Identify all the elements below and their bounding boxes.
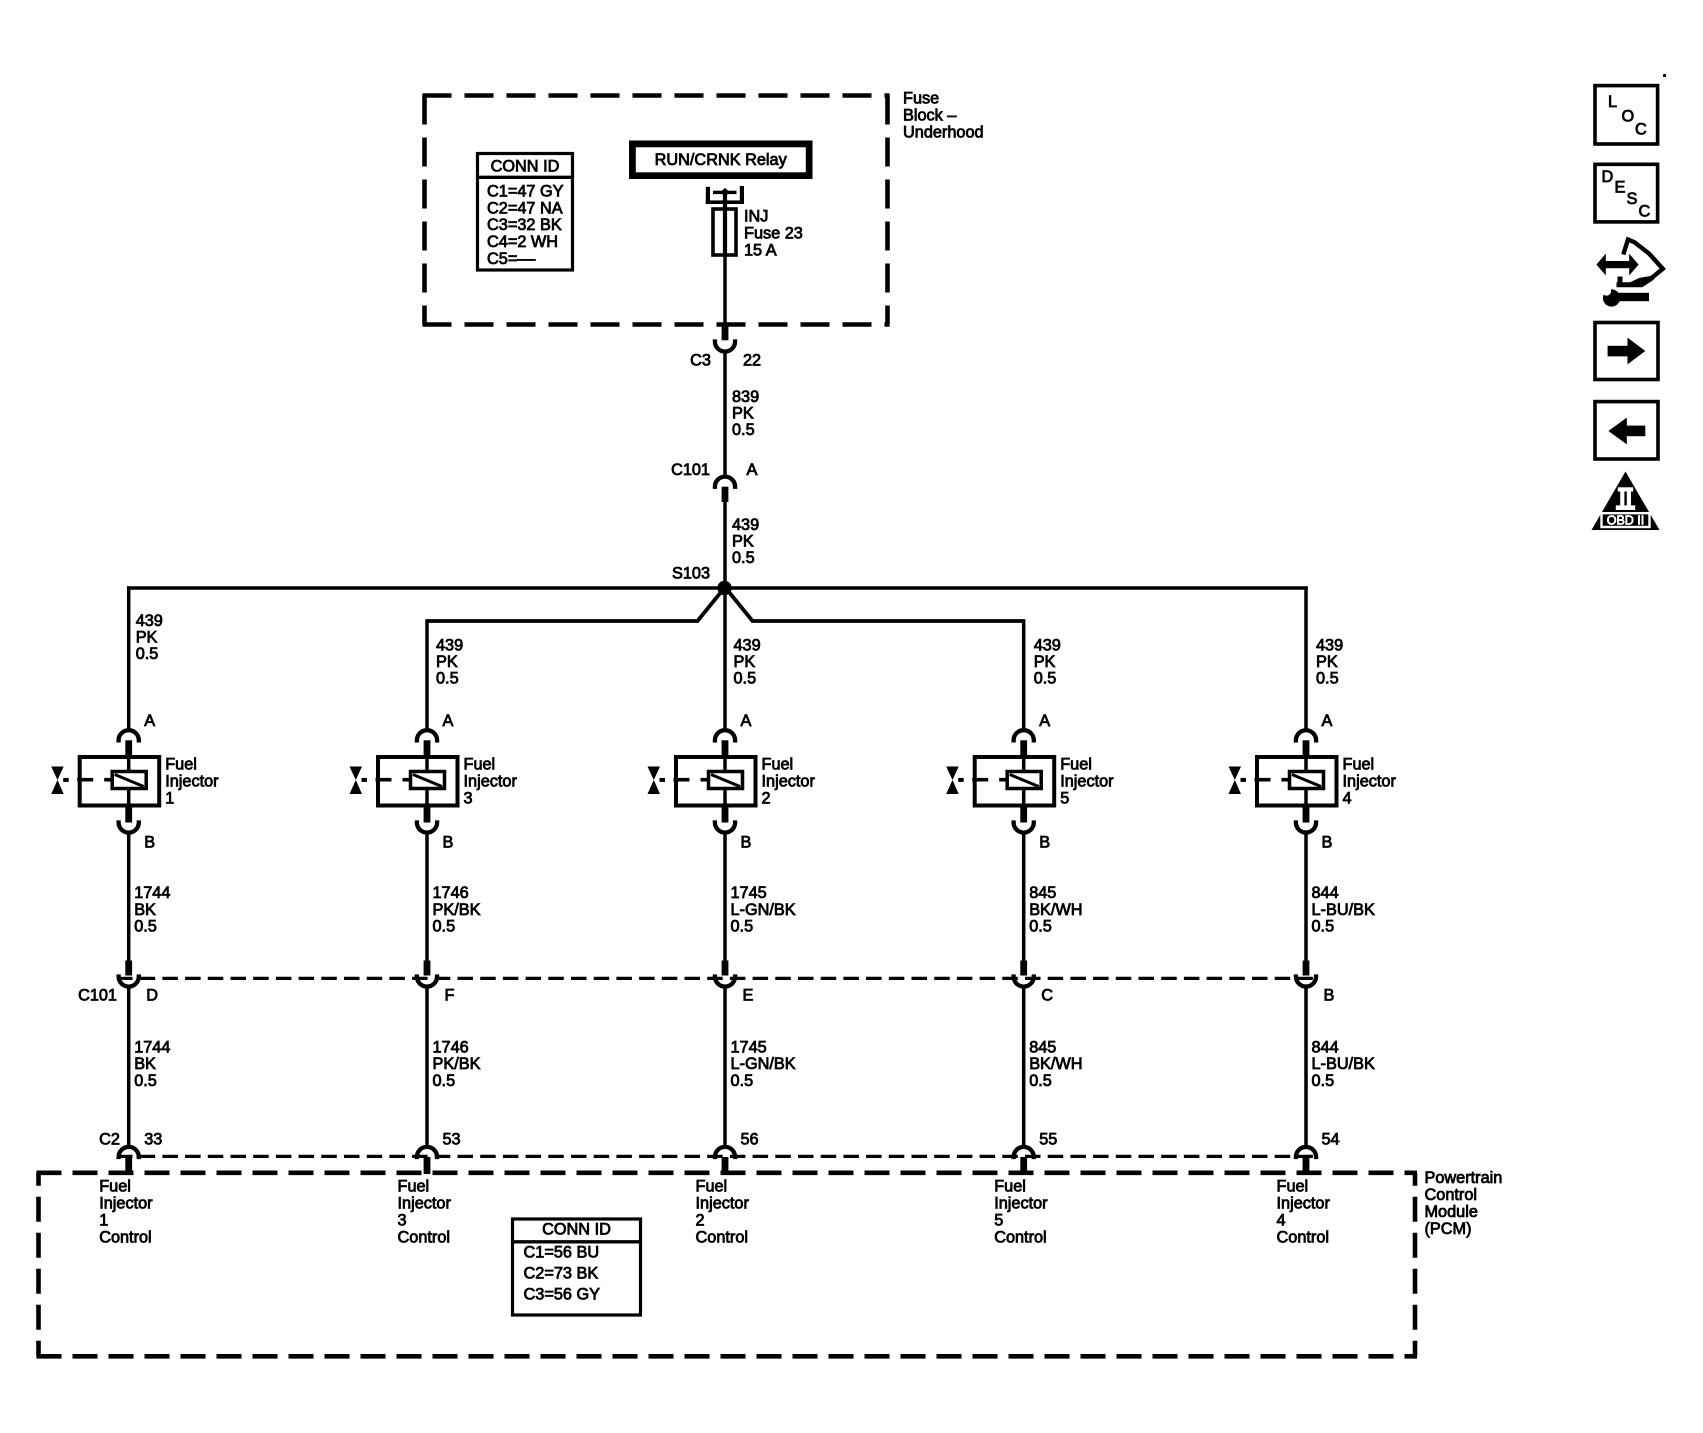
svg-text:RUN/CRNK Relay: RUN/CRNK Relay [655, 151, 788, 169]
fuel injector 1 pin B [125, 806, 132, 823]
svg-text:0.5: 0.5 [134, 918, 157, 936]
wire 839 PK 0.5 [723, 353, 727, 477]
svg-text:1: 1 [165, 789, 174, 807]
svg-text:C: C [1041, 986, 1053, 1004]
svg-text:B: B [741, 834, 752, 852]
svg-text:439: 439 [136, 612, 163, 630]
svg-text:439: 439 [1034, 636, 1061, 654]
svg-text:B: B [1322, 834, 1333, 852]
relay contact diamond node [720, 188, 729, 197]
wire splice top rail [127, 586, 1308, 590]
svg-text:F: F [445, 986, 455, 1004]
svg-text:Fuel: Fuel [165, 755, 197, 773]
svg-text:C5=––: C5=–– [487, 250, 536, 268]
svg-text:Underhood: Underhood [903, 124, 984, 142]
svg-text:Module: Module [1425, 1203, 1478, 1221]
svg-text:Injector: Injector [1277, 1195, 1331, 1213]
speck [1663, 74, 1666, 77]
PCM dashed border [37, 1171, 1418, 1176]
svg-text:0.5: 0.5 [732, 549, 755, 567]
svg-text:0.5: 0.5 [731, 918, 754, 936]
svg-text:Fuel: Fuel [762, 755, 794, 773]
connector C101 pin D [125, 961, 132, 976]
svg-text:C2: C2 [99, 1130, 120, 1148]
svg-text:L-BU/BK: L-BU/BK [1312, 901, 1375, 919]
svg-text:B: B [144, 834, 155, 852]
svg-text:439: 439 [734, 636, 761, 654]
fuel injector 2 coil [709, 772, 743, 789]
connector C101 inline dashed line [117, 977, 1318, 980]
svg-text:L-BU/BK: L-BU/BK [1312, 1055, 1375, 1073]
fuel injector 3 coil [411, 772, 445, 789]
PCM connector C2 inline dashed line [117, 1155, 1318, 1158]
svg-text:Fuel: Fuel [1277, 1178, 1309, 1196]
svg-text:22: 22 [743, 352, 761, 370]
svg-text:C3: C3 [690, 352, 711, 370]
svg-text:Powertrain: Powertrain [1425, 1169, 1503, 1187]
svg-text:C4=2 WH: C4=2 WH [487, 233, 558, 251]
svg-text:1744: 1744 [134, 1038, 170, 1056]
svg-text:0.5: 0.5 [436, 669, 459, 687]
fuel injector 3 pilot dashes [376, 778, 392, 782]
svg-text:4: 4 [1277, 1212, 1286, 1230]
svg-text:2: 2 [696, 1212, 705, 1230]
svg-text:A: A [144, 712, 155, 730]
svg-text:Injector: Injector [1343, 772, 1397, 790]
svg-text:0.5: 0.5 [1312, 1072, 1335, 1090]
svg-text:C3=56 GY: C3=56 GY [524, 1286, 601, 1304]
svg-text:L-GN/BK: L-GN/BK [731, 901, 796, 919]
svg-text:CONN ID: CONN ID [491, 158, 560, 176]
svg-text:3: 3 [398, 1212, 407, 1230]
svg-text:A: A [747, 461, 758, 479]
svg-text:INJ: INJ [744, 208, 768, 226]
icon diagnostic arrows and wrench [1596, 240, 1662, 307]
svg-text:C101: C101 [671, 461, 710, 479]
svg-text:C3=32 BK: C3=32 BK [487, 216, 562, 234]
wire C101 to PCM pin 55 [1022, 988, 1026, 1146]
PCM CONN ID table [513, 1219, 641, 1315]
svg-text:0.5: 0.5 [732, 421, 755, 439]
svg-text:1744: 1744 [134, 884, 170, 902]
svg-text:15 A: 15 A [744, 242, 777, 260]
svg-text:B: B [443, 834, 454, 852]
icon DESC box [1595, 164, 1658, 222]
svg-text:BK/WH: BK/WH [1029, 901, 1082, 919]
wire branch injector 2 [723, 588, 727, 731]
svg-text:C1=56 BU: C1=56 BU [524, 1244, 600, 1262]
wire injector 1 to C101 [127, 834, 131, 961]
fuel injector 2 body [676, 757, 756, 806]
svg-text:S103: S103 [672, 565, 710, 583]
svg-text:E: E [1615, 179, 1626, 197]
svg-text:PK: PK [1316, 653, 1338, 671]
wire injector 2 to C101 [723, 834, 727, 961]
svg-text:Fuel: Fuel [1060, 755, 1092, 773]
svg-text:A: A [443, 712, 454, 730]
svg-text:5: 5 [1060, 789, 1069, 807]
fuel injector 2 nozzle valve [648, 767, 661, 795]
svg-text:OBD II: OBD II [1607, 513, 1645, 527]
svg-text:844: 844 [1312, 1038, 1339, 1056]
fuel injector 5 pilot dashes [972, 778, 988, 782]
svg-text:O: O [1622, 107, 1635, 125]
svg-text:1746: 1746 [433, 884, 469, 902]
svg-text:(PCM): (PCM) [1425, 1220, 1472, 1238]
svg-text:PK: PK [436, 653, 458, 671]
svg-text:0.5: 0.5 [136, 645, 159, 663]
svg-text:0.5: 0.5 [1312, 918, 1335, 936]
svg-text:PK: PK [1034, 653, 1056, 671]
svg-text:A: A [1039, 712, 1050, 730]
connector C101 pin F [424, 961, 431, 976]
svg-text:Injector: Injector [994, 1195, 1048, 1213]
icon OBD II triangle [1592, 472, 1660, 531]
fuel injector 4 nozzle valve [1229, 767, 1242, 795]
wire splice second rail left [427, 589, 724, 621]
relay output contact bracket [706, 187, 710, 204]
svg-text:C: C [1635, 121, 1647, 139]
fuse block underhood dashed border [423, 93, 890, 98]
svg-text:Fuel: Fuel [398, 1178, 430, 1196]
wire C101 to PCM pin 53 [425, 988, 429, 1146]
svg-text:C2=73 BK: C2=73 BK [524, 1265, 599, 1283]
svg-text:3: 3 [464, 789, 473, 807]
fuel injector 3 nozzle valve [350, 767, 363, 795]
fuel injector 4 coil [1290, 772, 1324, 789]
svg-text:0.5: 0.5 [1029, 1072, 1052, 1090]
svg-text:Control: Control [696, 1229, 749, 1247]
svg-text:0.5: 0.5 [1316, 669, 1339, 687]
svg-text:L: L [1608, 93, 1617, 111]
svg-text:0.5: 0.5 [1034, 669, 1057, 687]
fuel injector 4 pilot dashes [1255, 778, 1271, 782]
svg-text:0.5: 0.5 [433, 1072, 456, 1090]
icon arrow left box [1595, 402, 1658, 459]
svg-text:D: D [1602, 168, 1614, 186]
svg-text:0.5: 0.5 [1029, 918, 1052, 936]
svg-text:1: 1 [99, 1212, 108, 1230]
svg-text:PK: PK [732, 405, 754, 423]
svg-text:PK: PK [734, 653, 756, 671]
svg-text:B: B [1039, 834, 1050, 852]
svg-text:Fuse 23: Fuse 23 [744, 225, 803, 243]
svg-text:Control: Control [994, 1229, 1046, 1247]
svg-text:53: 53 [443, 1130, 461, 1148]
svg-text:439: 439 [1316, 636, 1343, 654]
svg-text:E: E [743, 986, 754, 1004]
svg-text:439: 439 [436, 636, 463, 654]
svg-text:0.5: 0.5 [731, 1072, 754, 1090]
svg-text:844: 844 [1312, 884, 1339, 902]
svg-text:Fuse: Fuse [903, 90, 939, 108]
connector C3 pin 22 [722, 325, 729, 341]
fuel injector 5 body [975, 757, 1054, 806]
svg-text:Control: Control [398, 1229, 451, 1247]
wire C101 to PCM pin 33 [127, 988, 131, 1146]
fuel injector 1 nozzle valve [51, 767, 64, 795]
fuel injector 2 pilot dashes [674, 778, 690, 782]
svg-text:PK: PK [732, 533, 754, 551]
svg-text:Control: Control [99, 1229, 152, 1247]
wire injector 4 to C101 [1304, 834, 1308, 961]
svg-text:33: 33 [144, 1130, 162, 1148]
wire injector 3 to C101 [425, 834, 429, 961]
svg-text:2: 2 [762, 789, 771, 807]
fuel injector 3 pin B [424, 806, 431, 823]
svg-text:A: A [1322, 712, 1333, 730]
svg-text:BK: BK [134, 901, 156, 919]
fuel injector 5 pin B [1020, 806, 1027, 823]
svg-text:5: 5 [994, 1212, 1003, 1230]
wire injector 5 to C101 [1022, 834, 1026, 961]
svg-text:0.5: 0.5 [734, 669, 757, 687]
svg-text:1745: 1745 [731, 884, 767, 902]
svg-text:Fuel: Fuel [1343, 755, 1375, 773]
svg-text:4: 4 [1343, 789, 1352, 807]
fuel injector 5 coil [1007, 772, 1041, 789]
svg-text:BK: BK [134, 1055, 156, 1073]
svg-text:439: 439 [732, 516, 759, 534]
svg-text:L-GN/BK: L-GN/BK [731, 1055, 796, 1073]
wire C101 to PCM pin 56 [723, 988, 727, 1146]
svg-text:54: 54 [1322, 1130, 1340, 1148]
svg-text:S: S [1627, 190, 1638, 208]
svg-text:CONN ID: CONN ID [542, 1221, 611, 1239]
relay RUN/CRNK [629, 141, 813, 180]
svg-text:Injector: Injector [165, 772, 219, 790]
svg-text:56: 56 [741, 1130, 759, 1148]
svg-text:Fuel: Fuel [99, 1178, 131, 1196]
svg-text:D: D [146, 986, 158, 1004]
fuel injector 3 body [378, 757, 458, 806]
fuel injector 1 coil [112, 772, 146, 789]
svg-text:C2=47 NA: C2=47 NA [487, 199, 563, 217]
wire branch injector 3 [425, 619, 429, 731]
connector C101 pin B [1303, 961, 1310, 976]
wire branch injector 4 [1304, 586, 1308, 731]
fuel injector 2 pin B [722, 806, 729, 823]
icon LOC box [1595, 86, 1658, 144]
svg-text:A: A [741, 712, 752, 730]
svg-text:Control: Control [1425, 1186, 1478, 1204]
wire relay to fuse [723, 194, 727, 210]
svg-text:PK/BK: PK/BK [433, 1055, 481, 1073]
fuel injector 4 pin B [1303, 806, 1310, 823]
svg-text:1746: 1746 [433, 1038, 469, 1056]
svg-text:Fuel: Fuel [994, 1178, 1026, 1196]
fuse block CONN ID table [478, 154, 573, 271]
svg-text:Injector: Injector [1060, 772, 1114, 790]
svg-text:845: 845 [1029, 1038, 1056, 1056]
wire branch injector 5 [1022, 619, 1026, 731]
connector C101 pin E [722, 961, 729, 976]
svg-text:839: 839 [732, 388, 759, 406]
svg-text:Injector: Injector [762, 772, 816, 790]
fuel injector 4 body [1257, 757, 1337, 806]
svg-text:C: C [1639, 203, 1651, 221]
svg-text:55: 55 [1039, 1130, 1057, 1148]
svg-text:C101: C101 [78, 986, 117, 1004]
svg-text:Fuel: Fuel [696, 1178, 728, 1196]
svg-text:Fuel: Fuel [464, 755, 496, 773]
wire 439 PK 0.5 to splice [723, 500, 727, 588]
svg-text:0.5: 0.5 [134, 1072, 157, 1090]
svg-text:C1=47 GY: C1=47 GY [487, 183, 564, 201]
svg-text:0.5: 0.5 [433, 918, 456, 936]
connector C101 pin C [1020, 961, 1027, 976]
wire branch injector 1 [127, 586, 131, 731]
wire fuse to connector C3 [723, 255, 727, 325]
svg-text:Block –: Block – [903, 107, 957, 125]
svg-text:Injector: Injector [398, 1195, 452, 1213]
fuel injector 5 nozzle valve [946, 767, 959, 795]
wire C101 to PCM pin 54 [1304, 988, 1308, 1146]
svg-text:Injector: Injector [99, 1195, 153, 1213]
fuse INJ Fuse 23 15 A [713, 209, 736, 255]
svg-text:Injector: Injector [464, 772, 518, 790]
svg-text:1745: 1745 [731, 1038, 767, 1056]
icon arrow right box [1595, 323, 1658, 380]
svg-text:PK: PK [136, 629, 158, 647]
svg-text:PK/BK: PK/BK [433, 901, 481, 919]
fuel injector 1 body [80, 757, 160, 806]
wire splice second rail right [727, 589, 1024, 621]
fuel injector 1 pilot dashes [77, 778, 93, 782]
svg-text:BK/WH: BK/WH [1029, 1055, 1082, 1073]
svg-text:845: 845 [1029, 884, 1056, 902]
svg-text:Injector: Injector [696, 1195, 750, 1213]
svg-text:B: B [1324, 986, 1335, 1004]
svg-text:Control: Control [1277, 1229, 1330, 1247]
